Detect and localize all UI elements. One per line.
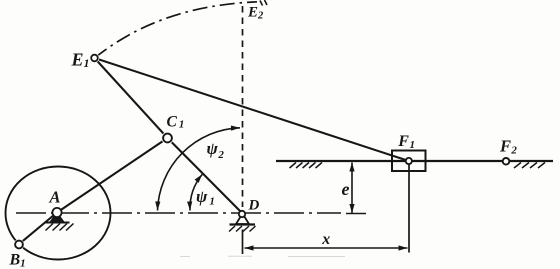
svg-text:ψ2: ψ2 (207, 139, 225, 161)
svg-text:E1: E1 (71, 49, 90, 70)
slider block at F1 (392, 151, 426, 172)
link A-C1 (57, 138, 168, 213)
pin joint C1 (161, 132, 173, 144)
svg-text:x: x (321, 231, 330, 248)
faint scan specks line (180, 255, 345, 257)
ground hatching on guide line left (290, 163, 323, 169)
slider guide line through F1 and F2 (276, 160, 553, 162)
pin joint A (52, 208, 61, 217)
link B1-A (19, 213, 57, 245)
tick marks at arc end near E2 (260, 0, 267, 6)
extension line below D (242, 230, 244, 255)
dashed vertical line through D and E2 (242, 6, 244, 207)
psi1 angle arc (190, 174, 202, 210)
svg-text:ψ1: ψ1 (196, 187, 215, 208)
link E1-F1 (95, 58, 409, 161)
psi2 angle arc (158, 128, 241, 211)
ground symbol at D (229, 214, 256, 232)
pin joint E1 (90, 53, 100, 63)
ground symbol at A (46, 213, 74, 231)
svg-text:B1: B1 (9, 252, 26, 269)
svg-text:D: D (248, 197, 260, 213)
coupler-point arc E1 to E2 (dash-dot) (95, 2, 258, 58)
crank circle (path of B about A) (6, 167, 111, 260)
pin joint B1 (14, 239, 25, 250)
svg-text:F1: F1 (397, 133, 415, 151)
extension line below F1 (408, 163, 410, 253)
centerline last dash (346, 213, 366, 215)
svg-text:F2: F2 (499, 136, 517, 156)
dimension x (horizontal) (245, 247, 408, 249)
dimension e (vertical) (351, 163, 353, 214)
svg-text:E2: E2 (247, 5, 264, 22)
centerline through A and D (dash-dot) (16, 212, 341, 214)
pin joint D (239, 211, 245, 217)
ground hatching on guide line right of F2 (514, 163, 545, 169)
pin joint F2 (503, 158, 510, 165)
svg-text:A: A (49, 188, 61, 207)
svg-text:e: e (342, 179, 350, 199)
svg-text:C1: C1 (167, 114, 185, 131)
link C1-D (168, 138, 243, 214)
pin joint F1 (406, 158, 412, 164)
link E1-C1 (95, 58, 168, 138)
